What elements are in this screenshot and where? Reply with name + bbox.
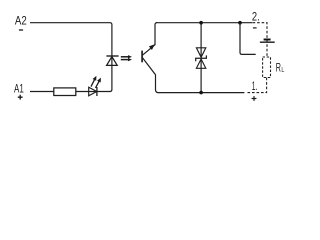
optocoupler light arrows — [121, 55, 132, 61]
plus polarity under 1 — [252, 96, 257, 101]
bottom output rail — [158, 92, 245, 94]
emitter arrowhead — [149, 44, 155, 50]
TVS zener bar — [196, 55, 207, 61]
phototransistor emitter (upper leg, to top rail) — [143, 23, 157, 55]
wire A2 input (top, with corner down to optocoupler LED) — [30, 23, 112, 92]
plus polarity under A1 — [18, 95, 23, 100]
phototransistor base bar — [141, 51, 143, 63]
svg-text:2.: 2. — [252, 10, 260, 24]
TVS bottom triangle — [196, 59, 205, 68]
bridged clamp stub (L-wire from top rail) — [240, 23, 256, 55]
wire A1 input (bottom) — [30, 91, 111, 93]
load resistor RL dashed box — [263, 57, 271, 78]
external circuit dashed wire (RL to terminal 1) — [246, 78, 267, 93]
external circuit dashed wire (terminal 2 to battery to RL) — [253, 23, 267, 57]
svg-text:1.: 1. — [252, 79, 258, 93]
TVS suppressor diode vertical wire — [200, 23, 202, 93]
junction dot bottom TVS — [199, 91, 203, 95]
junction dot terminal 2 branch — [238, 21, 242, 25]
top output rail — [156, 22, 252, 24]
minus polarity under 2 — [253, 27, 257, 29]
svg-text:A1: A1 — [14, 81, 24, 95]
svg-text:R: R — [276, 61, 281, 75]
battery cell long positive bar — [260, 42, 275, 43]
minus polarity under A2 — [19, 29, 23, 31]
phototransistor collector (lower leg, to bottom rail) — [143, 58, 159, 93]
resistor R (input series) — [54, 88, 76, 96]
svg-text:L: L — [281, 67, 284, 74]
TVS top triangle — [196, 48, 205, 58]
battery cell short negative bar — [264, 39, 271, 41]
svg-text:A2: A2 — [15, 14, 27, 28]
LED indicator diode — [89, 87, 97, 96]
optocoupler input LED (vertical diode) — [106, 55, 118, 57]
LED emission arrows — [91, 76, 101, 88]
junction dot top TVS — [199, 21, 203, 25]
